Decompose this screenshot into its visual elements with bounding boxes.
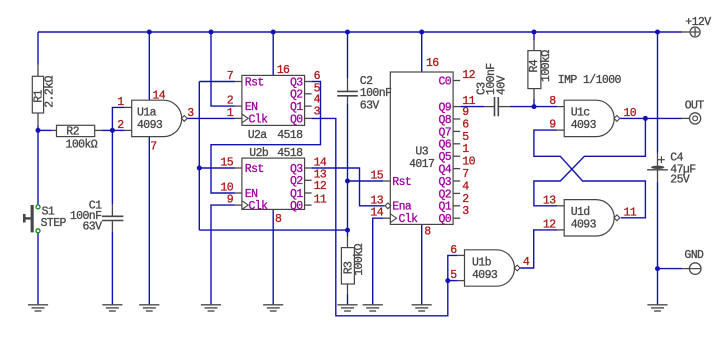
svg-text:Q3: Q3 — [438, 176, 451, 189]
U3 pin 12 — [462, 69, 475, 82]
terminal +12V — [682, 27, 701, 37]
U3 pin 4 — [462, 180, 469, 193]
U2a pin 3 — [314, 105, 321, 118]
U2b pin 12 — [314, 180, 327, 193]
U3 pin name Q0 — [438, 213, 451, 226]
resistor R1 — [32, 65, 45, 126]
label U1c — [571, 107, 591, 120]
label GND — [684, 249, 704, 262]
svg-text:12: 12 — [543, 218, 556, 231]
label C4 — [670, 151, 683, 164]
svg-text:Clk: Clk — [249, 113, 269, 126]
svg-text:+12V: +12V — [685, 16, 711, 29]
svg-text:40V: 40V — [495, 75, 508, 95]
svg-text:1: 1 — [227, 107, 234, 120]
svg-text:4017: 4017 — [409, 158, 434, 171]
wire node B to U1a pin 2 — [112, 129, 124, 131]
svg-text:4518: 4518 — [277, 147, 303, 160]
junction reset/R3 — [345, 228, 350, 233]
ground 5 — [263, 305, 283, 311]
svg-text:Rst: Rst — [392, 176, 411, 189]
value C1 100nF — [70, 210, 102, 223]
U2a pin 5 — [314, 82, 321, 95]
svg-text:4093: 4093 — [571, 219, 597, 232]
wire C3 to node C — [510, 106, 534, 108]
value C2 63V — [360, 99, 380, 112]
svg-text:U2b: U2b — [249, 147, 269, 160]
U2a pin name Q1 — [290, 101, 303, 114]
junction rail/R4 — [532, 30, 537, 35]
U2b pin 13 — [314, 168, 327, 181]
svg-text:8: 8 — [549, 95, 556, 108]
wire R1 to node A — [37, 125, 39, 130]
junction OUT node — [643, 116, 648, 121]
svg-text:R2: R2 — [66, 126, 79, 139]
wire U2b Q3 to U3 Ena — [312, 168, 385, 206]
svg-text:4518: 4518 — [277, 129, 303, 142]
U3 pin name Clk — [399, 213, 419, 226]
wire U1c output to OUT node — [620, 117, 645, 119]
svg-text:5: 5 — [462, 131, 469, 144]
U1c pin 10 — [624, 107, 637, 120]
IC U2b 4518 counter — [235, 158, 312, 209]
wire +12V to U2a EN — [211, 32, 235, 106]
U1b pin 5 — [450, 269, 457, 282]
junction reset/U2b-Rst — [197, 166, 202, 171]
svg-text:IMP 1/1000: IMP 1/1000 — [558, 74, 622, 87]
U3 pin name Q9 — [438, 102, 451, 115]
wire +12V to C4 — [657, 32, 659, 153]
svg-text:4093: 4093 — [137, 119, 163, 132]
U3 pin 2 — [462, 193, 469, 206]
svg-text:100nF: 100nF — [360, 87, 392, 100]
label U2b — [249, 147, 269, 160]
svg-text:11: 11 — [314, 194, 327, 207]
wire U3 Q9 to C3 — [460, 106, 484, 108]
svg-text:4093: 4093 — [571, 119, 597, 132]
U2a pin 2 — [227, 95, 234, 108]
U2a pin name Clk — [249, 113, 269, 126]
label C3 — [475, 82, 488, 95]
svg-text:U3: U3 — [415, 146, 428, 159]
label S1 STEP — [41, 217, 67, 230]
value C3 40V — [495, 75, 508, 95]
svg-text:11: 11 — [624, 206, 637, 219]
svg-text:6: 6 — [462, 118, 469, 131]
svg-text:9: 9 — [549, 119, 556, 132]
capacitor C4 electrolytic — [647, 153, 668, 183]
resistor R2 — [52, 125, 102, 138]
junction rail/U2a-EN — [209, 30, 214, 35]
wire +12V to R1 (left branch) — [37, 32, 39, 65]
value R1 2.2k — [43, 76, 56, 108]
svg-text:63V: 63V — [82, 221, 102, 234]
wire U1b output to U1d pin 12 — [520, 230, 557, 268]
svg-text:10: 10 — [220, 182, 233, 195]
wire U3 pin 8 to ground — [421, 224, 423, 304]
U3 pin name Q2 — [438, 188, 451, 201]
svg-text:OUT: OUT — [685, 100, 705, 113]
U1d pin 12 — [543, 218, 556, 231]
label U1c 4093 — [571, 119, 597, 132]
wire C4 to GND node — [657, 183, 659, 269]
U3 pin 1 — [462, 143, 469, 156]
svg-text:15: 15 — [220, 157, 233, 170]
svg-text:U1b: U1b — [472, 256, 492, 269]
IC U2a 4518 counter — [235, 75, 312, 125]
wire U2a Q0 to U1b input rail — [312, 118, 448, 315]
wire U1b pins 5-6 tie — [448, 255, 458, 280]
wire +12V to U2a pin 16 — [272, 32, 274, 75]
terminal OUT — [682, 113, 701, 124]
ground 9 — [647, 305, 667, 311]
svg-text:6: 6 — [314, 70, 321, 83]
junction U1b input node — [445, 278, 450, 283]
op-amp U1a (NAND 4093) — [125, 100, 188, 136]
svg-text:10: 10 — [462, 156, 475, 169]
value R3 100k — [353, 244, 366, 276]
svg-text:Ena: Ena — [392, 201, 412, 214]
svg-text:U1d: U1d — [571, 206, 590, 219]
wire +12V to R4 — [533, 32, 535, 40]
capacitor C3 — [484, 97, 509, 116]
wire U3 Rst branch — [348, 180, 384, 182]
ground 8 — [412, 305, 432, 311]
svg-text:13: 13 — [370, 194, 383, 207]
U2a pin 4 — [314, 94, 321, 107]
wire node A to R2 — [38, 129, 52, 131]
svg-text:Q1: Q1 — [290, 101, 303, 114]
svg-text:16: 16 — [426, 57, 439, 70]
wire R2 to node B — [101, 129, 112, 131]
wire reset net vertical — [198, 82, 200, 231]
svg-text:5: 5 — [450, 269, 457, 282]
U3 pin name Ena — [392, 201, 412, 214]
label U1d 4093 — [571, 219, 597, 232]
label U3 4017 — [409, 158, 434, 171]
junction node B — [110, 128, 115, 133]
label U2b 4518 — [277, 147, 303, 160]
svg-text:2: 2 — [227, 95, 234, 108]
U3 pin 9 — [462, 106, 469, 119]
label U1a — [137, 107, 157, 120]
svg-text:Rst: Rst — [245, 163, 264, 176]
U3 pin 14 — [370, 207, 383, 220]
wire U1a pin 1 tie — [112, 107, 124, 130]
svg-text:Q1: Q1 — [290, 188, 303, 201]
svg-text:6: 6 — [450, 244, 457, 257]
svg-text:9: 9 — [227, 194, 234, 207]
U2a pin name Q3 — [290, 76, 303, 89]
svg-text:Q3: Q3 — [290, 76, 303, 89]
wire node A to S1 — [37, 130, 39, 204]
svg-text:4: 4 — [462, 180, 469, 193]
U3 pin 15 — [370, 170, 383, 183]
label S1 — [42, 206, 55, 219]
svg-text:C4: C4 — [670, 151, 683, 164]
svg-text:7: 7 — [150, 140, 156, 153]
label C2 — [360, 75, 373, 88]
wire R3 to ground — [347, 295, 349, 305]
wire U2a Q3 to U2b EN cascade — [211, 82, 321, 194]
U1a pin 14 — [152, 90, 165, 103]
junction node C — [532, 104, 537, 109]
U1b pin 4 — [523, 256, 530, 269]
U1b pin 6 — [450, 244, 457, 257]
ground 2 — [102, 305, 122, 311]
svg-text:4093: 4093 — [472, 269, 498, 282]
U2b pin 8 — [275, 213, 282, 226]
label IMP 1/1000 — [558, 74, 622, 87]
wire U1d output to U1c pin 9 (cross) — [534, 130, 646, 218]
op-amp U1d (NAND 4093) — [557, 200, 620, 236]
value C2 100nF — [360, 87, 392, 100]
svg-text:100kΩ: 100kΩ — [353, 244, 366, 276]
svg-text:Q8: Q8 — [438, 114, 451, 127]
U2a pin name Q2 — [290, 89, 303, 102]
wire OUT node to OUT terminal — [645, 117, 681, 119]
svg-text:EN: EN — [245, 101, 258, 114]
value C3 100nF — [485, 63, 498, 95]
svg-text:3: 3 — [314, 105, 321, 118]
junction GND node — [655, 266, 660, 271]
svg-text:3: 3 — [462, 205, 469, 218]
U2b pin name Q2 — [290, 175, 303, 188]
wire U1b pin 5 — [448, 280, 458, 282]
U2b pin name Clk — [249, 200, 269, 213]
svg-text:Clk: Clk — [249, 200, 269, 213]
resistor R3 — [341, 237, 355, 295]
wire U2b Rst branch — [199, 167, 235, 169]
U3 pin 11 — [462, 95, 475, 108]
svg-text:7: 7 — [462, 168, 468, 181]
ground 7 — [363, 305, 383, 311]
junction rail/U1a-14 — [147, 30, 152, 35]
label U1d — [571, 206, 590, 219]
U1a pin 2 — [117, 119, 124, 132]
svg-text:EN: EN — [245, 188, 258, 201]
svg-text:U1c: U1c — [571, 107, 591, 120]
U3 pin name C0 — [438, 75, 451, 88]
svg-text:Q2: Q2 — [290, 175, 303, 188]
wire reset net horizontal — [199, 229, 347, 231]
svg-text:9: 9 — [462, 106, 469, 119]
U3 pin name Q1 — [438, 201, 451, 214]
wire GND node down — [657, 269, 659, 305]
wire reset net to R3 — [347, 230, 349, 236]
svg-text:100kΩ: 100kΩ — [66, 139, 98, 152]
label U3 — [415, 146, 428, 159]
svg-text:Q0: Q0 — [438, 213, 451, 226]
resistor R4 — [528, 40, 541, 99]
U2b pin 15 — [220, 157, 233, 170]
svg-text:10: 10 — [624, 107, 637, 120]
U1a pin 1 — [117, 96, 124, 109]
U2a pin 1 — [227, 107, 234, 120]
wire node B to C1 — [111, 130, 113, 204]
junction reset/U3-Rst — [345, 179, 350, 184]
U2b pin 10 — [220, 182, 233, 195]
junction rail/C4 — [655, 30, 660, 35]
svg-text:63V: 63V — [360, 99, 380, 112]
ground 6 — [337, 305, 357, 311]
U1c pin 9 — [549, 119, 556, 132]
svg-text:Q9: Q9 — [438, 102, 451, 115]
svg-text:Q4: Q4 — [438, 164, 451, 177]
U3 pin name Q8 — [438, 114, 451, 127]
U2b pin name Q1 — [290, 188, 303, 201]
svg-text:Q5: Q5 — [438, 151, 451, 164]
wire C2 to reset net — [347, 104, 349, 230]
label U1b — [472, 256, 492, 269]
svg-text:U1a: U1a — [137, 107, 157, 120]
label U1a 4093 — [137, 119, 163, 132]
U2b pin 9 — [227, 194, 234, 207]
wire U2a Rst branch — [199, 81, 235, 83]
U3 pin name Q3 — [438, 176, 451, 189]
wire U1a pin 7 to ground — [148, 136, 150, 305]
label U1b 4093 — [472, 269, 498, 282]
capacitor C2 — [337, 78, 358, 104]
svg-text:Q6: Q6 — [438, 139, 451, 152]
U2b pin name EN — [245, 188, 258, 201]
svg-text:8: 8 — [275, 213, 282, 226]
svg-text:14: 14 — [370, 207, 383, 220]
U3 pin name Q7 — [438, 126, 451, 139]
svg-text:U2a: U2a — [248, 129, 268, 142]
svg-text:4: 4 — [523, 256, 530, 269]
svg-text:2.2kΩ: 2.2kΩ — [43, 76, 56, 108]
op-amp U1c (NAND 4093) — [557, 100, 620, 136]
svg-text:7: 7 — [227, 70, 233, 83]
U2a pin 7 — [227, 70, 233, 83]
svg-text:GND: GND — [684, 249, 704, 262]
U2a pin name Q0 — [290, 113, 303, 126]
label U2a 4518 — [277, 129, 303, 142]
svg-text:Q1: Q1 — [438, 201, 451, 214]
svg-text:12: 12 — [462, 69, 475, 82]
U2a pin name Rst — [245, 76, 264, 89]
wire R4 to node C — [533, 99, 535, 107]
U3 pin 7 — [462, 168, 468, 181]
terminal GND — [682, 263, 701, 275]
svg-text:2: 2 — [117, 119, 124, 132]
U2a pin 6 — [314, 70, 321, 83]
junction rail/C2 — [345, 30, 350, 35]
wire +12V to U3 pin 16 — [421, 32, 423, 72]
wire U1c output to U1d pin 13 (cross) — [534, 118, 646, 205]
U3 pin 6 — [462, 118, 469, 131]
U3 pin 8 — [424, 226, 431, 239]
U2b pin name Q0 — [290, 200, 303, 213]
wire GND node to GND terminal — [658, 268, 683, 270]
svg-text:25V: 25V — [670, 174, 690, 187]
U1a pin 3 — [187, 107, 194, 120]
wire S1 to ground — [37, 233, 39, 305]
svg-text:Rst: Rst — [245, 76, 264, 89]
U3 pin 16 — [426, 57, 439, 70]
svg-text:3: 3 — [187, 107, 194, 120]
value C4 47uF — [670, 164, 696, 177]
U2b pin 14 — [314, 157, 327, 170]
label U2a — [248, 129, 268, 142]
U3 pin name Rst — [392, 176, 411, 189]
junction node A — [36, 128, 41, 133]
IC U3 4017 counter — [383, 72, 460, 224]
op-amp U1b (NAND 4093) — [458, 250, 520, 286]
svg-text:15: 15 — [370, 170, 383, 183]
ground 1 — [28, 305, 48, 311]
wire U2b Clk to ground — [211, 205, 235, 305]
svg-text:Q3: Q3 — [290, 163, 303, 176]
svg-text:C0: C0 — [438, 75, 451, 88]
U3 pin name Q5 — [438, 151, 451, 164]
svg-text:Q2: Q2 — [438, 188, 451, 201]
capacitor C1 — [102, 204, 123, 232]
U1c pin 8 — [549, 95, 556, 108]
label C1 — [89, 200, 102, 213]
value R4 100k — [540, 50, 553, 82]
junction rail/U2a-16 — [271, 30, 276, 35]
svg-text:16: 16 — [277, 64, 290, 77]
svg-text:Q7: Q7 — [438, 126, 451, 139]
U3 pin 3 — [462, 205, 469, 218]
svg-text:14: 14 — [152, 90, 165, 103]
svg-text:1: 1 — [462, 143, 469, 156]
value C4 25V — [670, 174, 690, 187]
U3 pin 13 — [370, 194, 383, 207]
wire U2b pin 8 to ground — [272, 209, 274, 304]
U2a pin 16 — [277, 64, 290, 77]
svg-text:100kΩ: 100kΩ — [540, 50, 553, 82]
svg-text:Q0: Q0 — [290, 200, 303, 213]
U1d pin 13 — [543, 194, 556, 207]
svg-text:Q0: Q0 — [290, 113, 303, 126]
value R2 100k — [66, 139, 98, 152]
svg-text:12: 12 — [314, 180, 327, 193]
U1d pin 11 — [624, 206, 637, 219]
U3 pin 10 — [462, 156, 475, 169]
U2a pin name EN — [245, 101, 258, 114]
svg-text:Clk: Clk — [399, 213, 419, 226]
svg-text:2: 2 — [462, 193, 469, 206]
value C1 63V — [82, 221, 102, 234]
svg-text:STEP: STEP — [41, 217, 67, 230]
ground 4 — [201, 305, 221, 311]
svg-text:13: 13 — [543, 194, 556, 207]
junction rail/U3-16 — [419, 30, 424, 35]
wire +12V supply rail — [38, 31, 682, 33]
label OUT — [685, 100, 705, 113]
switch S1 — [23, 205, 40, 233]
wire U3 Clk to ground — [373, 218, 384, 305]
U3 pin name Q4 — [438, 164, 451, 177]
svg-text:Q2: Q2 — [290, 89, 303, 102]
wire C1 to ground — [111, 232, 113, 305]
U2b pin 11 — [314, 194, 327, 207]
wire +12V to U1a pin 14 — [148, 32, 150, 101]
U2b pin name Rst — [245, 163, 264, 176]
svg-text:8: 8 — [424, 226, 431, 239]
wire U1a output to U2a Clk — [187, 117, 235, 119]
U3 pin name Q6 — [438, 139, 451, 152]
svg-text:C2: C2 — [360, 75, 373, 88]
ground 3 — [139, 305, 159, 311]
wire node C to U1c pin 8 — [534, 106, 557, 108]
svg-text:1: 1 — [117, 96, 124, 109]
U1a pin 7 — [150, 140, 156, 153]
U3 pin 5 — [462, 131, 469, 144]
